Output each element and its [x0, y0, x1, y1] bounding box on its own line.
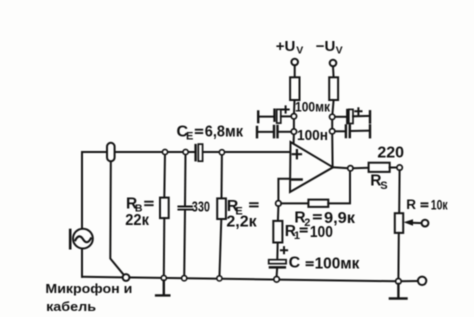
node: 330 top junction: [183, 149, 188, 154]
wire: cable shield from plug down then slant to rail: [110, 162, 123, 275]
svg-text:−U: −U: [316, 38, 336, 55]
wire: supply resistor to -rail junctions and op-amp apex: [332, 100, 333, 167]
terminal -Uv: [330, 60, 337, 67]
svg-text:Микрофон и: Микрофон и: [45, 281, 132, 296]
wire: node to R2: [281, 202, 308, 204]
svg-text:22к: 22к: [125, 212, 149, 229]
wire: top signal rail: [82, 151, 290, 153]
wire: node down to R1: [277, 206, 280, 221]
svg-text:100н: 100н: [297, 127, 328, 144]
node: RS right junction: [397, 165, 402, 170]
wire: +Uv to supply resistor: [294, 65, 296, 77]
wire: bottom ground rail: [82, 277, 418, 282]
wire: output junction to RS: [353, 167, 369, 169]
equals sign of label RE: [249, 203, 259, 206]
wire: -Uv to supply resistor: [332, 66, 335, 77]
node: RB bottom junction: [161, 275, 166, 280]
svg-text:100: 100: [310, 224, 333, 241]
svg-text:220: 220: [377, 145, 404, 162]
capacitor C: box plate: [269, 260, 286, 264]
wire: C to bottom rail: [276, 269, 279, 277]
node: +rail lower junction: [291, 129, 296, 134]
node: output junction: [348, 166, 353, 171]
equals sign of label R2: [313, 215, 322, 218]
wire: 330 branch top: [184, 152, 187, 206]
node: -rail lower junction: [330, 129, 335, 134]
svg-text:100мк: 100мк: [315, 255, 360, 272]
node: cable shield junction circle: [123, 274, 130, 281]
wire: left drop from rail to microphone: [81, 152, 83, 229]
capacitor 100n (right, lower row): [335, 130, 345, 132]
node: -rail upper junction: [330, 114, 335, 119]
capacitor CE 6.8uF (series in rail): thin plate: [194, 145, 196, 160]
resistor R2 9.9k: [308, 200, 328, 207]
microphone capsule bar: [69, 230, 72, 248]
node: inverting node junction: [276, 201, 282, 207]
svg-text:6,8мк: 6,8мк: [205, 124, 243, 141]
terminal: wiper output: [422, 220, 429, 227]
svg-text:100мк: 100мк: [295, 99, 330, 114]
capacitor 100uF electrolytic (left of +Uv): [257, 112, 259, 123]
equals sign of label RB: [144, 202, 153, 206]
op-amp U1 triangle: [290, 142, 333, 192]
wire: R1 to capacitor C: [276, 243, 278, 260]
node: RE top junction: [219, 150, 224, 155]
capacitor CE 6.8uF: box plate: [198, 144, 202, 161]
wire: RB branch top: [163, 152, 166, 198]
capacitor C: bar plate: [269, 266, 286, 269]
microphone source B1: circle with sine: [73, 229, 93, 249]
potentiometer wiper arrow: [412, 222, 422, 224]
wire: supply resistor to +rail junctions and op-amp: [293, 100, 296, 144]
wire: inverting input to node: [278, 179, 290, 201]
wire: op-amp output: [333, 166, 348, 169]
svg-text:кабель: кабель: [46, 299, 96, 314]
wire: 330 branch bottom: [183, 210, 186, 278]
svg-text:2,2к: 2,2к: [226, 214, 257, 231]
wire: pot bottom to rail: [397, 233, 399, 279]
resistor R1 100: [273, 221, 282, 243]
resistor RS 220: [369, 163, 390, 172]
wire: mic bottom to bottom rail corner: [81, 249, 83, 277]
resistor RE 2.2k: [217, 198, 226, 219]
svg-text:330: 330: [192, 198, 210, 215]
node: C bottom junction: [274, 277, 280, 283]
resistor (supply -) 100: [329, 77, 338, 100]
svg-text:V: V: [296, 45, 303, 57]
wire: RE branch top: [221, 153, 223, 199]
equals sign of label C: [306, 262, 314, 265]
svg-text:S: S: [380, 180, 387, 192]
terminal: output ground: [418, 277, 426, 285]
svg-text:+U: +U: [276, 38, 296, 55]
wire: RB branch bottom: [163, 218, 166, 278]
capacitor 330 (plates): [178, 207, 192, 210]
op-amp - input mark: [292, 178, 301, 181]
capacitor 100uF electrolytic (right of -Uv): [335, 116, 346, 118]
svg-text:C: C: [289, 255, 301, 272]
ground symbol (right): [390, 284, 407, 299]
node: RE bottom junction: [217, 276, 222, 281]
equals sign of label R pot: [421, 203, 429, 206]
wire: RE branch bottom: [219, 219, 221, 278]
svg-text:R: R: [406, 197, 416, 212]
equals sign of label CE: [195, 130, 203, 133]
node: RB top junction: [162, 149, 167, 154]
ground symbol (left): [156, 281, 169, 296]
connector J1 (cable plug oval on rail): [107, 143, 115, 162]
node: 330 bottom junction: [182, 276, 187, 281]
potentiometer R 10k body: [395, 213, 403, 233]
wire: junction down to potentiometer: [398, 170, 400, 213]
equals sign of label R1: [300, 228, 308, 231]
svg-text:V: V: [336, 45, 343, 57]
svg-text:1: 1: [294, 230, 300, 242]
op-amp + input mark: [293, 150, 301, 158]
capacitor C 100uF electrolytic: + sign: [281, 247, 287, 253]
wire: RS to right junction: [390, 167, 397, 169]
resistor RB 22k: [160, 198, 169, 219]
node: +rail upper junction: [291, 114, 296, 119]
svg-text:E: E: [186, 131, 193, 143]
resistor (supply +) 100: [290, 77, 299, 100]
node: bottom right junction: [396, 279, 402, 285]
terminal +Uv: [291, 59, 298, 66]
wire: R2 to feedback riser: [328, 171, 350, 203]
capacitor 100n (left, lower row): [256, 127, 258, 137]
svg-text:10к: 10к: [431, 197, 448, 212]
